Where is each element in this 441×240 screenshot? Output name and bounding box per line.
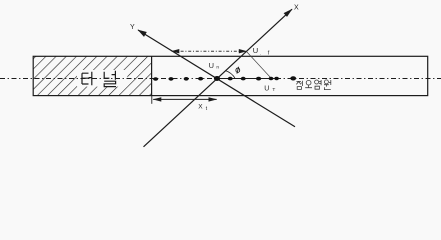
char 점	[296, 81, 302, 86]
char 오	[306, 80, 311, 85]
X axis arrowhead	[284, 9, 293, 17]
measurement dots right of origin	[228, 77, 233, 81]
char 염	[315, 80, 319, 84]
svg-text:U: U	[264, 85, 269, 92]
svg-text:U: U	[253, 46, 258, 55]
tunnel wall hatched block	[33, 56, 151, 95]
origin node dot	[214, 76, 220, 81]
U_f dashed double arrow	[173, 50, 245, 52]
tunnel face line	[151, 56, 153, 95]
pollution source dot	[290, 76, 296, 80]
pollution source hangul label (점오염원) drawn as strokes	[296, 80, 330, 90]
angle arc phi	[226, 71, 235, 78]
duct bar outline	[33, 56, 428, 95]
svg-text:U: U	[209, 61, 214, 70]
svg-text:.: .	[260, 51, 261, 56]
X_t dimension tick	[151, 96, 153, 104]
char 터	[82, 73, 89, 84]
projection line from U_f tip to centerline	[247, 52, 271, 78]
phi symbol	[236, 68, 240, 72]
centerline (dash-dot axis)	[0, 78, 441, 80]
tunnel hangul label (터 널) drawn as strokes	[82, 71, 116, 87]
measurement dots left of origin	[153, 77, 158, 81]
Y axis line	[138, 30, 295, 127]
svg-text:X: X	[294, 5, 299, 12]
svg-text:n: n	[216, 65, 219, 70]
X_t dimension arrow	[153, 98, 216, 100]
svg-text:Y: Y	[130, 24, 135, 31]
X axis line	[144, 9, 293, 147]
char 원	[324, 80, 328, 84]
svg-text:T: T	[272, 87, 275, 93]
Y axis arrowhead	[138, 30, 147, 37]
label gap in hatching	[77, 70, 127, 87]
char 널	[104, 72, 109, 78]
U_T solid segment along centerline	[217, 78, 278, 80]
svg-text:X: X	[198, 104, 203, 111]
